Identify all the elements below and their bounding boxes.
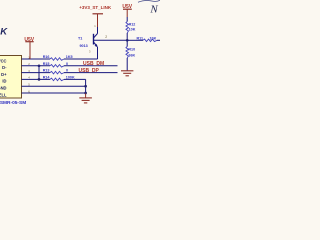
svg-text:K: K <box>0 27 8 38</box>
svg-text:N: N <box>149 4 158 16</box>
svg-text:ID: ID <box>2 79 6 84</box>
svg-text:USB_DP: USB_DP <box>79 68 100 74</box>
decorative cursive stroke top right <box>138 0 160 2</box>
wire row3 D+ left <box>22 72 51 74</box>
power symbol U5V (right) stem <box>126 9 128 17</box>
junction dot row4 <box>38 78 41 81</box>
svg-text:GND: GND <box>0 86 7 91</box>
svg-text:R11: R11 <box>137 36 144 40</box>
wire vertical D- to row4 <box>38 66 40 80</box>
svg-text:R14: R14 <box>43 76 51 80</box>
wire vertical ground column <box>85 79 87 93</box>
wire row4 ID left <box>22 78 51 80</box>
power symbol U5V (right) bar <box>123 8 132 10</box>
power symbol U5V (left) stem <box>29 42 31 59</box>
ground symbol (USB) stem <box>85 93 87 98</box>
wire U5V to R12 <box>126 17 128 22</box>
svg-text:10K: 10K <box>129 27 136 31</box>
transistor T1 emitter with arrow <box>94 42 98 47</box>
svg-text:USB_DM: USB_DM <box>83 61 104 67</box>
svg-text:R15: R15 <box>43 62 50 66</box>
svg-text:D-: D- <box>2 65 7 70</box>
svg-text:R12: R12 <box>129 22 136 26</box>
wire R12 to junction <box>126 33 128 47</box>
svg-text:U5V: U5V <box>122 4 132 10</box>
wire base of T1 to divider junction <box>94 39 128 41</box>
junction dot row5 <box>84 85 87 88</box>
wire R10 to ground <box>126 58 128 71</box>
svg-text:10K: 10K <box>150 36 157 40</box>
svg-text:9013: 9013 <box>80 44 88 48</box>
wire row2 D- left <box>22 65 51 67</box>
svg-text:U5V: U5V <box>24 37 34 43</box>
junction dot row6 <box>84 92 87 95</box>
wire row4 right to ground column <box>64 78 86 80</box>
power symbol +3V3_ST_LINK bar <box>93 13 104 15</box>
resistor R16 <box>50 58 64 61</box>
wire row1 VCC right segment to transistor emitter <box>64 58 98 60</box>
wire row3 D+ right / USB_DP <box>64 72 118 74</box>
junction dot divider <box>126 39 129 42</box>
junction dot on D- <box>38 64 41 67</box>
transistor T1 base bar <box>93 34 95 45</box>
connector J1 body <box>0 56 22 99</box>
svg-text:1K5: 1K5 <box>66 55 73 59</box>
power symbol +3V3_ST_LINK stem <box>97 14 99 27</box>
resistor R14 <box>50 78 64 81</box>
wire row5 GND <box>22 85 86 87</box>
svg-text:VCC: VCC <box>0 58 7 63</box>
svg-text:R16: R16 <box>43 55 50 59</box>
svg-text:+3V3_ST_LINK: +3V3_ST_LINK <box>79 5 112 10</box>
resistor R12 (vertical) <box>126 22 129 34</box>
svg-text:SHELL: SHELL <box>0 92 7 97</box>
ground symbol (USB) bars <box>79 97 92 99</box>
wire row6 SHELL <box>22 92 86 94</box>
resistor R11 (horizontal) <box>143 39 157 42</box>
svg-text:R10: R10 <box>128 48 135 52</box>
power symbol U5V (left) bar <box>25 41 33 43</box>
wire row1 VCC left segment <box>22 58 51 60</box>
svg-text:D+: D+ <box>1 72 7 77</box>
resistor R10 (vertical) <box>126 47 129 59</box>
background <box>0 0 160 120</box>
svg-text:SMR-05-SM: SMR-05-SM <box>0 100 26 106</box>
ground symbol (divider) bars <box>121 70 133 72</box>
wire junction to R11 <box>127 39 143 41</box>
svg-text:36K: 36K <box>128 54 135 58</box>
wire row2 D- right / USB_DM <box>64 65 118 67</box>
svg-text:T1: T1 <box>78 36 82 40</box>
resistor R15 <box>50 65 64 68</box>
resistor R13 <box>50 71 64 74</box>
svg-text:R13: R13 <box>43 69 50 73</box>
transistor T1 collector pin <box>97 27 99 34</box>
svg-text:2: 2 <box>105 35 107 39</box>
